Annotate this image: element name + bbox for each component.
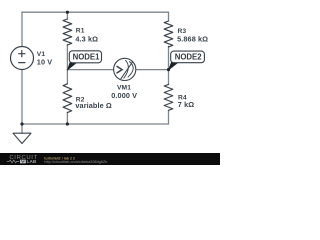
wire left branch upper — [21, 12, 23, 46]
svg-text:NODE1: NODE1 — [73, 53, 101, 62]
svg-text:NODE2: NODE2 — [175, 53, 203, 62]
svg-text:LAB: LAB — [27, 159, 37, 164]
svg-text:7 kΩ: 7 kΩ — [178, 100, 194, 109]
footer bar — [0, 153, 220, 165]
label V1 value — [37, 51, 52, 66]
wire right branch mid segment — [168, 46, 170, 84]
node NODE1 flag — [67, 51, 102, 71]
node NODE2 flag — [168, 51, 205, 71]
svg-text:10 V: 10 V — [37, 57, 52, 66]
label VM1 value — [111, 85, 137, 100]
svg-text:5.868 kΩ: 5.868 kΩ — [177, 35, 208, 44]
junction dot node2 — [167, 68, 170, 71]
wire right branch lower stub — [168, 111, 170, 124]
resistor R3 — [164, 21, 173, 47]
resistor R2 — [63, 84, 72, 113]
voltmeter VM1 — [114, 58, 136, 80]
svg-text:0.000 V: 0.000 V — [111, 91, 137, 100]
label R3 value — [177, 28, 208, 43]
label R1 value — [75, 28, 98, 44]
label R2 value — [75, 96, 112, 109]
footer CircuitLab logo — [7, 155, 38, 164]
svg-text:variable Ω: variable Ω — [75, 101, 112, 110]
wire middle branch mid segment — [66, 45, 68, 84]
ground — [13, 124, 31, 144]
junction dot ground — [20, 122, 23, 125]
wire top rail — [22, 11, 169, 13]
voltage source V1 — [11, 47, 34, 70]
wire right branch upper stub — [168, 12, 170, 21]
voltmeter arrow glyph — [117, 66, 122, 73]
junction dot top — [66, 11, 69, 14]
junction dot bottom middle — [66, 122, 69, 125]
wire voltmeter to node2 — [136, 69, 169, 71]
label R4 value — [178, 95, 194, 109]
wire middle branch lower stub — [66, 112, 68, 124]
resistor R4 — [164, 84, 173, 110]
resistor R1 — [63, 19, 72, 45]
wire bottom rail — [22, 123, 169, 125]
svg-text:4.3 kΩ: 4.3 kΩ — [75, 35, 98, 44]
svg-text:http://circuitlab.com/c4mka336: http://circuitlab.com/c4mka336iig6Zb — [44, 159, 107, 164]
wire left branch lower — [21, 70, 23, 125]
wire middle branch upper stub — [66, 12, 68, 19]
wire rail node1 to voltmeter — [67, 69, 113, 71]
